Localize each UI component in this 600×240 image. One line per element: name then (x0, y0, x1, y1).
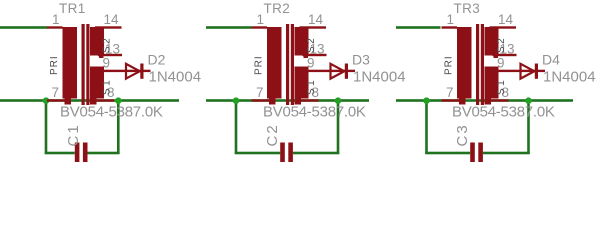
wire left vertical down to C2 (235, 100, 238, 154)
wire right vertical down to C3 (527, 100, 530, 154)
svg-text:14: 14 (498, 12, 514, 27)
pin 8 lead of TR2 (301, 99, 319, 101)
pin 13 lead of TR2 (303, 54, 327, 56)
transformer TR3 (442, 24, 521, 105)
svg-text:7: 7 (256, 85, 264, 100)
anode/cathode leads of D2 (126, 70, 151, 72)
junction dot right at TR1 pin 8 net (115, 97, 122, 104)
pin 14 lead of TR2 (300, 26, 327, 28)
svg-text:7: 7 (52, 85, 60, 100)
wire net bottom horizontal to TR1 pin 7 (0, 99, 179, 102)
wire net top to TR1 pin 1 (0, 26, 47, 29)
svg-text:C1: C1 (65, 123, 82, 146)
svg-text:S2: S2 (102, 36, 113, 53)
wire right vertical down to C2 (337, 100, 340, 154)
pin 13 lead of TR1 (98, 54, 122, 56)
core bars of TR3 (476, 24, 479, 105)
pin 1 lead of TR2 (252, 26, 268, 28)
left plate of C3 (470, 143, 475, 163)
capacitor C3 (470, 143, 483, 163)
primary winding of TR2 (267, 27, 282, 99)
svg-text:BV054-5387.0K: BV054-5387.0K (60, 104, 163, 121)
junction dot right at TR2 pin 8 net (335, 97, 342, 104)
secondary winding S1 of TR1 (90, 67, 104, 99)
svg-text:9: 9 (307, 56, 315, 71)
junction dot left at TR1 pin 7 net (43, 97, 50, 104)
pin 1 lead of TR1 (47, 26, 63, 28)
wire net top to TR3 pin 1 (396, 26, 441, 29)
wire cap loop bottom left segment (425, 152, 470, 155)
wire cap loop bottom right segment (483, 152, 530, 155)
pin 14 lead of TR3 (490, 26, 517, 28)
wire net bottom horizontal to TR2 pin 7 (206, 99, 369, 102)
secondary winding S2 of TR3 (485, 27, 499, 56)
core bars of TR1 (82, 24, 85, 105)
wire net top to TR2 pin 1 (206, 26, 252, 29)
anode triangle of D4 (521, 64, 535, 79)
pin 13 lead of TR3 (493, 54, 517, 56)
pin 14 lead of TR1 (95, 26, 122, 28)
secondary winding S2 of TR1 (90, 27, 104, 56)
pin 8 lead of TR3 (491, 99, 509, 101)
wire cap loop bottom left segment (235, 152, 281, 155)
left plate of C2 (280, 143, 285, 163)
diode D3 (331, 64, 356, 79)
svg-text:1N4004: 1N4004 (543, 68, 596, 85)
svg-text:D2: D2 (148, 52, 166, 68)
svg-text:TR3: TR3 (454, 1, 481, 16)
wire left vertical down to C1 (45, 100, 48, 154)
svg-text:S1: S1 (102, 78, 113, 95)
core bars of TR2 (286, 24, 289, 105)
anode/cathode leads of D4 (521, 70, 546, 72)
svg-text:TR2: TR2 (264, 1, 291, 16)
pin 7 lead of TR1 (47, 99, 65, 101)
svg-text:PRI: PRI (49, 55, 60, 75)
cathode bar of D2 (140, 64, 143, 79)
anode triangle of D2 (126, 64, 140, 79)
wire cap loop bottom left segment (45, 152, 75, 155)
svg-text:PRI: PRI (254, 55, 265, 75)
junction dot left at TR3 pin 7 net (423, 97, 430, 104)
svg-text:1N4004: 1N4004 (353, 68, 406, 85)
left plate of C1 (75, 143, 80, 163)
wire cap loop bottom right segment (293, 152, 339, 155)
diode D2 (126, 64, 151, 79)
svg-text:S1: S1 (496, 78, 507, 95)
capacitor C2 (280, 143, 293, 163)
svg-text:14: 14 (308, 12, 324, 27)
wire right vertical down to C1 (117, 100, 120, 154)
svg-text:S2: S2 (306, 36, 317, 53)
svg-text:S2: S2 (496, 36, 507, 53)
pin 8 lead of TR1 (96, 99, 114, 101)
cathode bar of D3 (345, 64, 348, 79)
svg-text:C3: C3 (454, 123, 471, 146)
svg-text:7: 7 (446, 85, 454, 100)
svg-text:S1: S1 (306, 78, 317, 95)
svg-text:BV054-5387.0K: BV054-5387.0K (263, 104, 366, 121)
junction dot right at TR3 pin 8 net (525, 97, 532, 104)
pin 1 lead of TR3 (442, 26, 458, 28)
cathode bar of D4 (535, 64, 538, 79)
pin 9 lead of TR3 (490, 70, 521, 72)
pin 7 lead of TR2 (252, 99, 270, 101)
right plate of C2 (288, 143, 293, 163)
wire left vertical down to C3 (425, 100, 428, 154)
junction dot left at TR2 pin 7 net (233, 97, 240, 104)
wire cap loop bottom right segment (88, 152, 120, 155)
right plate of C3 (478, 143, 483, 163)
wire net bottom horizontal to TR3 pin 7 (396, 99, 573, 102)
secondary winding S2 of TR2 (295, 27, 309, 56)
svg-text:D3: D3 (352, 52, 370, 68)
secondary winding S1 of TR3 (485, 67, 499, 99)
svg-text:1N4004: 1N4004 (149, 68, 202, 85)
svg-text:9: 9 (497, 56, 505, 71)
pin 7 lead of TR3 (442, 99, 460, 101)
diode D4 (521, 64, 546, 79)
pin 9 lead of TR1 (95, 70, 126, 72)
anode/cathode leads of D3 (331, 70, 356, 72)
svg-text:D4: D4 (542, 52, 560, 68)
secondary winding S1 of TR2 (295, 67, 309, 99)
transformer TR1 (47, 24, 126, 105)
svg-text:TR1: TR1 (59, 1, 86, 16)
primary winding of TR3 (457, 27, 472, 99)
primary winding of TR1 (63, 27, 78, 99)
svg-text:PRI: PRI (444, 55, 455, 75)
transformer TR2 (252, 24, 331, 105)
anode triangle of D3 (331, 64, 345, 79)
capacitor C1 (75, 143, 88, 163)
svg-text:14: 14 (104, 12, 120, 27)
svg-text:C2: C2 (264, 123, 281, 146)
right plate of C1 (83, 143, 88, 163)
svg-text:BV054-5387.0K: BV054-5387.0K (452, 104, 555, 121)
svg-text:9: 9 (103, 56, 111, 71)
pin 9 lead of TR2 (300, 70, 331, 72)
